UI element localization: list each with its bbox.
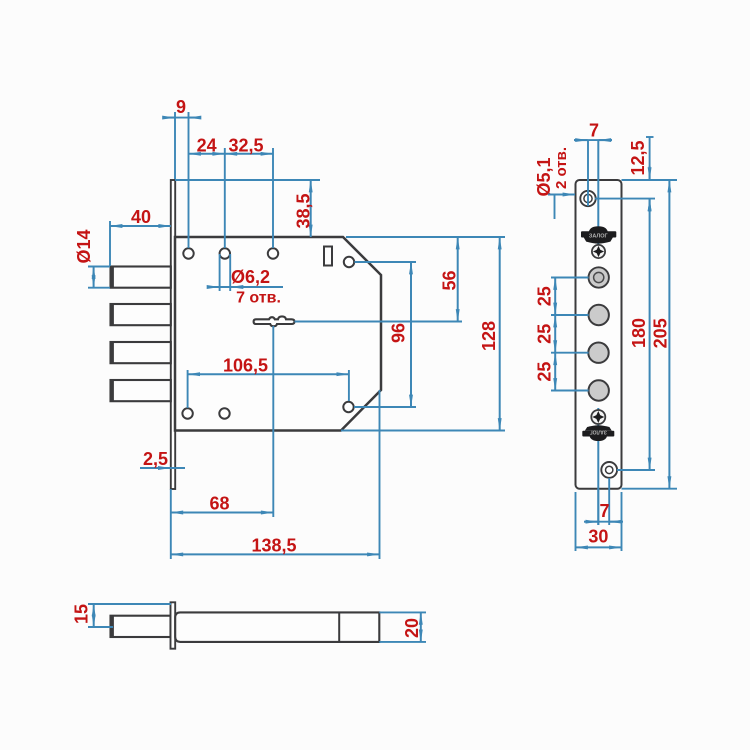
svg-text:2 отв.: 2 отв. [553,147,570,189]
svg-text:Ø6,2: Ø6,2 [231,267,270,287]
svg-text:25: 25 [534,324,554,344]
svg-text:7: 7 [599,501,609,521]
svg-text:106,5: 106,5 [223,355,268,375]
svg-text:138,5: 138,5 [251,536,296,556]
svg-text:38,5: 38,5 [294,193,314,228]
svg-text:7 отв.: 7 отв. [236,290,281,307]
svg-text:40: 40 [131,207,151,227]
svg-text:2,5: 2,5 [143,449,168,469]
svg-text:12,5: 12,5 [628,140,648,175]
svg-text:96: 96 [389,323,409,343]
svg-text:Ø5,1: Ø5,1 [534,157,554,196]
svg-text:ЗАЛОГ: ЗАЛОГ [590,429,607,435]
svg-text:32,5: 32,5 [228,135,263,155]
svg-text:30: 30 [588,527,608,547]
svg-text:ЗАЛОГ: ЗАЛОГ [589,234,609,240]
svg-text:Ø14: Ø14 [74,229,94,263]
svg-text:68: 68 [209,494,229,514]
svg-text:20: 20 [402,618,422,638]
svg-text:9: 9 [176,97,186,117]
svg-text:180: 180 [629,318,649,348]
svg-text:15: 15 [72,604,92,624]
svg-text:128: 128 [479,321,499,351]
svg-text:24: 24 [197,135,217,155]
svg-text:7: 7 [589,121,599,141]
svg-text:205: 205 [651,318,671,348]
svg-text:56: 56 [440,270,460,290]
svg-text:25: 25 [534,362,554,382]
svg-text:25: 25 [534,286,554,306]
